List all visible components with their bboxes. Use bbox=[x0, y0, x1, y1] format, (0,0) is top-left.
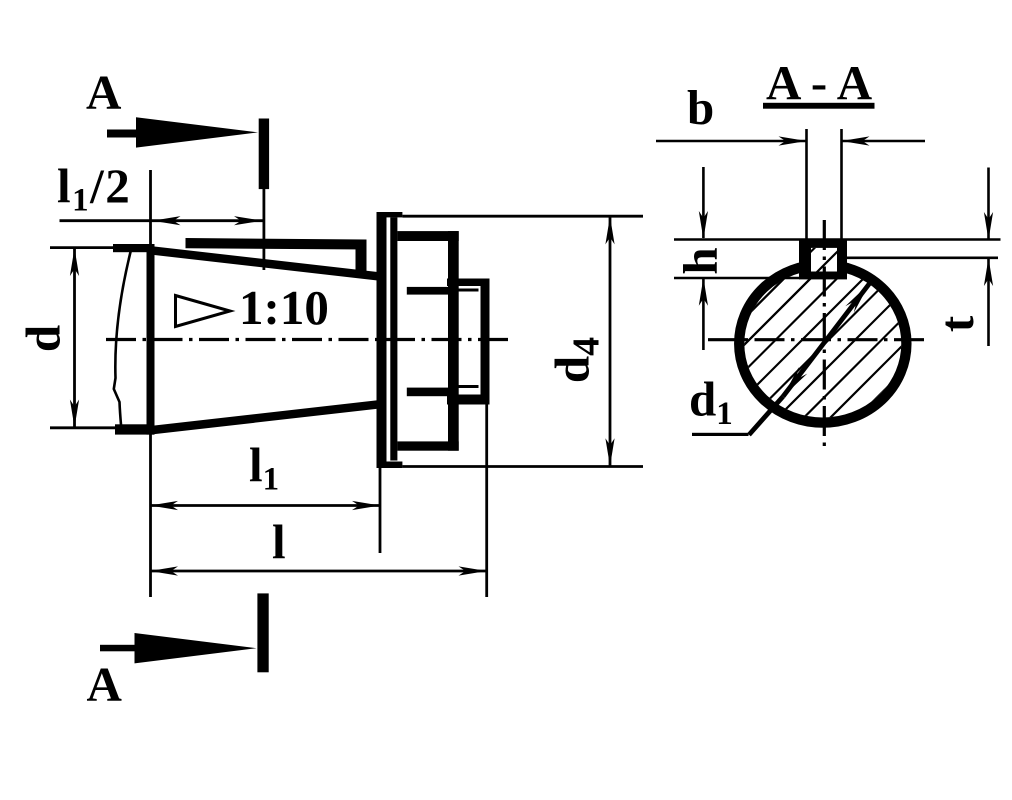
taper symbol triangle bbox=[176, 296, 231, 327]
shaft section outline (circle) bbox=[739, 265, 906, 423]
dim l1/2 line bbox=[60, 219, 265, 222]
svg-text:A: A bbox=[86, 65, 122, 120]
svg-text:h: h bbox=[673, 247, 728, 274]
section trace thin line top bbox=[262, 189, 265, 270]
dim d4 extension top bbox=[402, 215, 643, 218]
svg-text:d: d bbox=[16, 325, 71, 352]
circle top tangent line bbox=[847, 256, 998, 259]
dim d4 extension bottom bbox=[402, 465, 643, 468]
extension line at cone large end bbox=[149, 170, 152, 597]
hatching of shaft section bbox=[593, 195, 1012, 470]
dim h upper arrow bbox=[702, 167, 705, 238]
keyway inner bbox=[811, 248, 837, 272]
nut lower facet line bbox=[407, 388, 449, 397]
thread minor line top bbox=[454, 289, 479, 292]
dim l right extension bbox=[485, 404, 488, 597]
svg-text:l: l bbox=[272, 515, 286, 570]
slot top line bbox=[674, 238, 1001, 241]
label h (rotated) bbox=[673, 247, 728, 274]
label t (rotated) bbox=[929, 315, 984, 332]
shaft top edge cap bbox=[113, 244, 155, 252]
centerline (shaft axis) bbox=[106, 338, 512, 341]
svg-text:1:10: 1:10 bbox=[239, 280, 329, 335]
svg-text:t: t bbox=[929, 315, 984, 332]
circle vertical centerline bbox=[823, 220, 826, 451]
dim b extension right bbox=[840, 129, 843, 240]
svg-text:A - A: A - A bbox=[766, 55, 873, 110]
cone bottom generatrix bbox=[150, 400, 378, 434]
cone large end face bbox=[147, 244, 155, 435]
nut top edge bbox=[397, 231, 458, 241]
shaft bottom edge cap bbox=[115, 424, 155, 434]
section arrow top bbox=[136, 117, 258, 147]
key end face bbox=[356, 240, 367, 275]
dim h lower arrow bbox=[702, 279, 705, 351]
nut upper facet line bbox=[407, 287, 449, 295]
dim b line left bbox=[656, 140, 807, 143]
dim l1 line bbox=[150, 504, 380, 507]
washer bottom cap bbox=[377, 462, 403, 469]
d1 leader line bbox=[749, 397, 783, 435]
section arrow bottom tail bbox=[100, 645, 141, 652]
washer left face bbox=[377, 212, 387, 468]
dim b extension left bbox=[805, 129, 808, 240]
slot bottom extension line bbox=[674, 277, 800, 280]
dim d extension top bbox=[50, 246, 150, 249]
thread stub bottom edge bbox=[447, 395, 490, 405]
thread stub top edge bbox=[447, 279, 490, 287]
dim l1 right extension bbox=[379, 440, 382, 553]
nut right face bbox=[448, 231, 459, 451]
dim d extension bottom bbox=[50, 426, 125, 429]
section plane trace bottom (thick bar) bbox=[257, 593, 268, 672]
d1 diameter arrow bbox=[783, 283, 870, 396]
key top edge bbox=[186, 238, 367, 250]
cone top generatrix bbox=[150, 246, 378, 281]
svg-text:A: A bbox=[87, 657, 123, 712]
washer top cap bbox=[377, 212, 403, 217]
thread stub end face bbox=[481, 279, 490, 405]
thread minor line bottom bbox=[454, 385, 479, 388]
washer right face line bbox=[390, 217, 397, 460]
circle horizontal centerline bbox=[708, 338, 924, 341]
dim l line bbox=[150, 570, 487, 573]
section plane trace top (thick bar) bbox=[259, 119, 269, 190]
section arrow bottom bbox=[135, 633, 257, 663]
dim t lower arrow bbox=[987, 259, 990, 347]
nut bottom edge bbox=[397, 441, 458, 450]
dim d line bbox=[73, 248, 76, 428]
label d (rotated) bbox=[16, 325, 71, 352]
keyway/key slot outer bbox=[799, 240, 847, 280]
label d4 (rotated) bbox=[545, 337, 608, 383]
dim d4 line bbox=[609, 216, 612, 466]
d1 label underline bbox=[692, 433, 749, 436]
section arrow top tail bbox=[107, 130, 141, 138]
break line (wavy) bbox=[114, 250, 131, 433]
svg-text:b: b bbox=[687, 80, 714, 135]
dim t upper arrow bbox=[987, 168, 990, 240]
svg-text:l1/2: l1/2 bbox=[57, 159, 131, 219]
title underline bbox=[763, 103, 875, 109]
key hatching bbox=[593, 195, 895, 470]
dim b line right bbox=[842, 140, 926, 143]
